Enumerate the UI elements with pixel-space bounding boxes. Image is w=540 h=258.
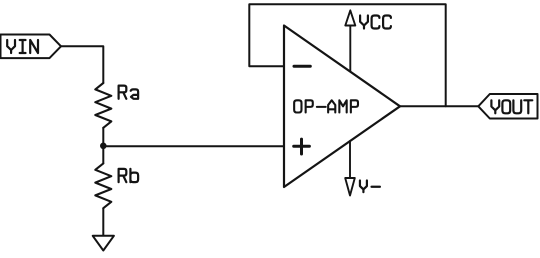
wire op-amp output — [400, 105, 478, 107]
wire node to Rb — [102, 146, 104, 163]
label OP-AMP — [294, 100, 358, 112]
op-amp + input marker — [294, 139, 310, 154]
wire Rb to ground — [102, 208, 104, 236]
net tag VIN — [1, 35, 62, 59]
label V- — [360, 181, 380, 193]
op-amp - input marker — [294, 65, 310, 68]
power pin V- — [345, 141, 355, 196]
node junction — [100, 143, 107, 150]
wire Ra to node — [102, 128, 104, 146]
net tag VOUT — [478, 94, 537, 119]
power pin VCC — [345, 10, 355, 71]
resistor Rb — [95, 163, 111, 208]
label Rb — [119, 169, 139, 182]
label Ra — [119, 86, 139, 99]
wire VIN to Ra — [61, 46, 103, 83]
op-amp U1 body — [284, 26, 400, 188]
label VCC — [360, 16, 391, 29]
resistor Ra — [95, 83, 111, 128]
wire node to op-amp + — [103, 145, 283, 147]
ground — [93, 236, 114, 251]
wire feedback (output to - input) — [249, 4, 445, 106]
